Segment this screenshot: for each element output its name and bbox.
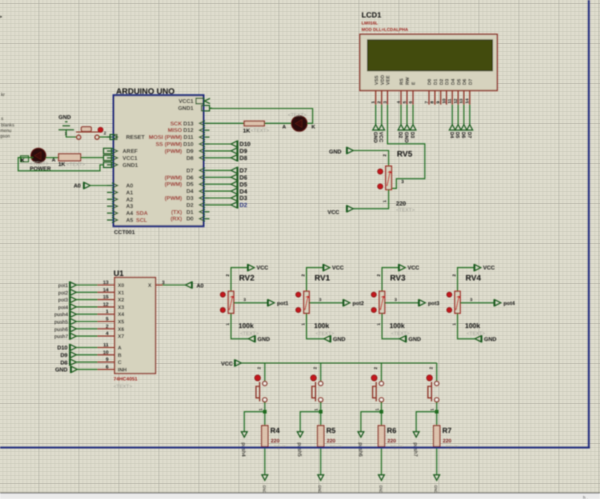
wire D13 to resistor R2 — [210, 122, 245, 124]
svg-text:GND: GND — [372, 132, 378, 144]
svg-text:6: 6 — [106, 364, 109, 370]
svg-text:VCC: VCC — [328, 210, 340, 216]
svg-text:SCL: SCL — [136, 218, 148, 224]
wiper wire of RV2 to pot1 — [234, 302, 268, 304]
svg-text:pot2: pot2 — [353, 301, 364, 307]
U1 inside pin labels — [118, 283, 152, 373]
svg-text:<TEXT>: <TEXT> — [67, 162, 86, 168]
potentiometer RV3 body — [379, 291, 384, 313]
svg-text:pot4: pot4 — [504, 301, 515, 307]
Arduino pin boxes RESET AREF VCC1 GND1 — [110, 135, 117, 140]
svg-text:push7: push7 — [412, 443, 418, 457]
potentiometer RV5 body — [386, 166, 392, 190]
svg-text:AREF: AREF — [123, 149, 139, 155]
wire RV5 pin 1 to VCC terminal — [353, 190, 388, 209]
terminal push7 (down arrow) — [413, 432, 419, 438]
svg-text:GND: GND — [329, 149, 341, 155]
wire junction to terminal push6 — [361, 412, 382, 432]
svg-text:<TEXT>: <TEXT> — [240, 331, 259, 337]
svg-text:<TEXT>: <TEXT> — [467, 331, 486, 337]
svg-text:(PWM): (PWM) — [165, 148, 183, 155]
interactive dots of RV4 — [447, 292, 452, 297]
svg-text:VCC: VCC — [408, 266, 420, 272]
svg-text:D8: D8 — [186, 156, 193, 162]
wire A0 terminal to Arduino pin A0 — [90, 185, 108, 187]
svg-text:100k: 100k — [314, 323, 329, 330]
svg-text:MOD DLL=LCDALPHA: MOD DLL=LCDALPHA — [362, 27, 410, 32]
svg-text:GND: GND — [59, 115, 71, 121]
svg-text:D3: D3 — [409, 132, 415, 139]
svg-text:D5: D5 — [456, 79, 462, 85]
svg-text:A4: A4 — [126, 211, 134, 217]
svg-text:D10: D10 — [183, 142, 193, 148]
resistor R2 1K (D13) — [244, 121, 264, 126]
svg-text:SCK: SCK — [170, 121, 182, 127]
svg-text:D8: D8 — [60, 360, 67, 366]
svg-text:GND: GND — [409, 337, 421, 343]
svg-text:menu: menu — [0, 128, 12, 133]
svg-text:C: C — [118, 360, 122, 366]
wire resistor R1 to VCC1 pin — [81, 157, 104, 159]
terminal pot1 — [268, 299, 275, 306]
potentiometer RV2 top wire to VCC — [231, 268, 248, 291]
terminal pot3 — [419, 299, 426, 306]
svg-text:220: 220 — [396, 201, 407, 208]
svg-text:100k: 100k — [239, 323, 254, 330]
svg-text:VCC: VCC — [378, 132, 384, 143]
svg-text:U1: U1 — [114, 269, 125, 278]
svg-text:X7: X7 — [118, 334, 124, 340]
U1 pin numbers left — [103, 280, 109, 370]
svg-text:A: A — [118, 346, 122, 352]
svg-text:SS (PWM): SS (PWM) — [156, 141, 183, 148]
svg-text:INH: INH — [118, 367, 127, 373]
junction dot below button push4 — [263, 410, 267, 414]
svg-text:X3: X3 — [118, 305, 124, 311]
svg-text:D9: D9 — [60, 353, 67, 359]
svg-text:D7: D7 — [468, 79, 474, 85]
svg-text:D1: D1 — [186, 210, 193, 216]
svg-text:10: 10 — [441, 98, 446, 103]
svg-text:pot2: pot2 — [58, 290, 68, 296]
Arduino left pin stubs and arrows — [107, 134, 118, 222]
ground terminal below R4 — [262, 475, 268, 481]
wire resistor R6 to ground terminal — [380, 447, 382, 475]
svg-text:A0: A0 — [197, 283, 204, 289]
svg-text:VCC: VCC — [257, 266, 269, 272]
svg-text:GND: GND — [434, 485, 438, 494]
svg-text:220: 220 — [387, 439, 396, 445]
svg-text:push6: push6 — [357, 443, 363, 457]
LCD1 pin numbers — [371, 98, 470, 103]
svg-text:14: 14 — [465, 98, 470, 103]
svg-text:D0: D0 — [186, 217, 193, 223]
svg-text:push5: push5 — [296, 443, 302, 457]
interactive dot of button push4 — [255, 375, 261, 381]
svg-text:9: 9 — [106, 357, 109, 363]
sheet border vertical line — [588, 0, 590, 448]
svg-text:<TEXT>: <TEXT> — [251, 128, 270, 134]
svg-text:D12: D12 — [183, 128, 193, 134]
push button SW1 (reset) — [76, 127, 99, 139]
terminal push4 (down arrow) — [241, 432, 247, 438]
wire button push4 to junction — [264, 402, 266, 412]
svg-text:GND: GND — [378, 485, 382, 494]
svg-text:1K: 1K — [243, 128, 250, 134]
svg-text:K: K — [21, 158, 25, 164]
svg-text:A2: A2 — [126, 197, 133, 203]
svg-text:(PWM): (PWM) — [165, 195, 183, 202]
bottom wire of RV4 to GND — [458, 313, 476, 339]
LCD1 pin stubs — [376, 91, 470, 105]
svg-text:3: 3 — [401, 179, 404, 184]
svg-text:POWER: POWER — [30, 166, 51, 172]
svg-text:D7: D7 — [186, 168, 193, 174]
svg-text:D6: D6 — [462, 79, 468, 85]
svg-text:gson: gson — [0, 134, 10, 139]
svg-text:<TEXT>: <TEXT> — [288, 113, 307, 119]
Arduino UNO module body — [114, 95, 204, 226]
svg-text:100k: 100k — [390, 323, 405, 330]
Arduino pin boxes VCC1 GND1 top right — [196, 98, 204, 103]
interactive dot of button push5 — [311, 375, 317, 381]
ground terminal below R6 — [378, 475, 384, 481]
svg-text:A: A — [282, 124, 286, 130]
U1 left pin stubs — [98, 285, 115, 369]
svg-text:K: K — [312, 124, 316, 130]
svg-text:D3: D3 — [186, 196, 193, 202]
svg-text:GND: GND — [55, 368, 67, 374]
svg-text:push5: push5 — [54, 320, 68, 326]
svg-text:CCT001: CCT001 — [114, 230, 135, 236]
LCD1 pin name labels — [374, 74, 474, 85]
interactive dot of button push7 — [427, 375, 433, 381]
svg-text:RV1: RV1 — [315, 274, 331, 283]
wire junction to resistor R7 — [436, 412, 438, 426]
wires Arduino D10 D9 D8 to terminals — [210, 143, 232, 145]
svg-text:push4: push4 — [54, 312, 68, 318]
svg-text:<TEXT>: <TEXT> — [114, 384, 133, 390]
svg-text:D6: D6 — [186, 175, 193, 181]
interactive dot of button push6 — [371, 375, 377, 381]
junction dot below button push5 — [319, 410, 323, 414]
Arduino red function labels — [149, 121, 183, 222]
Arduino left pin name labels — [123, 135, 146, 224]
svg-text:2: 2 — [106, 324, 109, 330]
interactive dots of RV3 — [371, 292, 376, 297]
wire button push5 to junction — [320, 402, 322, 412]
terminals D7 D6 D5 D4 D3 D2 — [231, 167, 238, 174]
svg-text:D13: D13 — [183, 121, 193, 127]
wire ground to button SW1 — [66, 130, 76, 137]
wire junction to resistor R4 — [264, 412, 266, 426]
svg-text:blanks: blanks — [1, 123, 15, 128]
svg-text:X6: X6 — [118, 327, 124, 333]
svg-text:pot4: pot4 — [58, 305, 68, 311]
wire resistor R5 to ground terminal — [320, 447, 322, 475]
svg-text:MOSI (PWM): MOSI (PWM) — [149, 134, 182, 141]
potentiometer RV1 body — [304, 291, 309, 313]
wire LED D2 cathode to GND1 — [210, 109, 313, 124]
svg-text:GND: GND — [258, 337, 270, 343]
svg-text:(RX): (RX) — [171, 216, 183, 223]
wire button push7 to junction — [436, 402, 438, 412]
svg-text:D1: D1 — [433, 79, 439, 85]
svg-text:(PWM): (PWM) — [165, 174, 183, 181]
svg-text:GND: GND — [403, 132, 409, 144]
svg-text:D3: D3 — [445, 79, 451, 85]
interactive dots of RV1 — [296, 292, 301, 297]
svg-text:(TX): (TX) — [171, 209, 182, 216]
potentiometer RV3 top wire to VCC — [382, 268, 399, 291]
svg-text:push6: push6 — [54, 327, 68, 333]
svg-text:220: 220 — [271, 439, 280, 445]
wire button push6 to junction — [380, 402, 382, 412]
wire junction to terminal push5 — [300, 412, 321, 432]
wire junction to terminal push4 — [244, 412, 264, 432]
wiper wire of RV4 to pot4 — [460, 302, 494, 304]
terminal A0 at U1 output — [186, 281, 193, 288]
terminal push6 (down arrow) — [358, 432, 364, 438]
svg-text:D0: D0 — [427, 79, 433, 85]
power terminal VCC of RV4 — [474, 264, 481, 271]
wire rail to button push7 — [436, 363, 438, 382]
wire rail to button push6 — [380, 363, 382, 382]
svg-text:push4: push4 — [240, 443, 246, 457]
wire VEE to RV5 wiper — [388, 105, 425, 189]
VCC rail wire for buttons — [241, 362, 436, 364]
wire LED anode to resistor R1 — [46, 157, 59, 159]
potentiometer RV4 top wire to VCC — [458, 268, 475, 291]
interactive dots of RV2 — [220, 292, 225, 297]
wire button to RESET pin — [99, 136, 109, 138]
svg-text:SDA: SDA — [136, 211, 148, 217]
svg-text:R4: R4 — [270, 426, 280, 435]
svg-text:RV3: RV3 — [390, 274, 406, 283]
svg-text:GND1: GND1 — [178, 106, 194, 112]
svg-text:14: 14 — [103, 287, 109, 293]
svg-text:11: 11 — [103, 343, 109, 349]
resistor R5 — [318, 426, 324, 447]
resistor R6 — [378, 426, 384, 447]
svg-text:D2: D2 — [397, 132, 403, 139]
terminal pot2 — [343, 299, 350, 306]
U1 output pin 3 stub — [156, 284, 163, 286]
wires Arduino D7-D2 to terminals — [210, 169, 232, 171]
svg-text:VSS: VSS — [374, 75, 380, 85]
LCD1 wires to terminals — [375, 105, 377, 125]
svg-text:X2: X2 — [118, 298, 124, 304]
wire resistor R2 to LED D2 — [264, 122, 291, 124]
svg-text:VCC1: VCC1 — [123, 156, 138, 162]
svg-text:RS: RS — [399, 78, 405, 85]
svg-text:A: A — [52, 158, 56, 164]
wire junction to resistor R6 — [380, 412, 382, 426]
svg-text:D5: D5 — [186, 182, 193, 188]
svg-text:VCC: VCC — [483, 266, 495, 272]
wiper wire of RV3 to pot3 — [385, 302, 419, 304]
svg-text:push7: push7 — [54, 334, 68, 340]
LCD1 body — [360, 34, 497, 90]
svg-text:D2: D2 — [439, 79, 445, 85]
svg-text:D4: D4 — [186, 189, 194, 195]
svg-text:D2: D2 — [240, 202, 248, 209]
svg-text:GND: GND — [333, 337, 345, 343]
bottom wire of RV2 to GND — [231, 313, 249, 339]
wiper wire of RV1 to pot2 — [309, 302, 343, 304]
svg-text:h .: h . — [583, 495, 588, 499]
svg-text:B: B — [118, 353, 122, 359]
Arduino right pin name labels — [178, 99, 194, 223]
push button push6 — [373, 381, 384, 402]
svg-text:GND: GND — [318, 485, 322, 494]
ground terminal below R5 — [318, 475, 324, 481]
ground terminal below R7 — [434, 475, 440, 481]
Arduino right pin stubs and arrows — [200, 98, 213, 221]
svg-text:15: 15 — [103, 295, 109, 301]
svg-text:A5: A5 — [126, 218, 133, 224]
interactive dot of reset button — [98, 127, 103, 132]
ground symbol near reset button — [59, 122, 75, 130]
svg-text:1: 1 — [106, 309, 109, 315]
svg-text:A3: A3 — [126, 204, 133, 210]
svg-text:D3: D3 — [240, 195, 248, 202]
svg-text:VCC: VCC — [221, 361, 233, 367]
wire rail to button push4 — [264, 363, 266, 382]
svg-text:D7: D7 — [240, 168, 248, 175]
svg-text:D5: D5 — [240, 181, 248, 188]
svg-text:100k: 100k — [465, 323, 480, 330]
bottom wire of RV1 to GND — [307, 313, 325, 339]
LCD1 terminals with labels — [373, 125, 379, 131]
svg-text:12: 12 — [453, 98, 458, 103]
svg-text:D2: D2 — [186, 203, 193, 209]
svg-text:LCD1: LCD1 — [362, 11, 383, 20]
svg-text:D4: D4 — [240, 188, 248, 195]
svg-text:D9: D9 — [186, 149, 193, 155]
wire resistor R7 to ground terminal — [436, 447, 438, 475]
LED D2 (D13 indicator) — [292, 116, 308, 132]
svg-text:<TEXT>: <TEXT> — [316, 331, 335, 337]
svg-text:(PWM): (PWM) — [165, 181, 183, 188]
potentiometer RV2 body — [228, 291, 233, 313]
svg-text:10: 10 — [103, 350, 109, 356]
wire rail to button push5 — [320, 363, 322, 382]
bottom wire of RV3 to GND — [382, 313, 400, 339]
svg-text:VEE: VEE — [386, 75, 392, 85]
terminal pot4 — [494, 299, 501, 306]
svg-text:74HC4051: 74HC4051 — [114, 376, 138, 382]
wire U1 output to A0 terminal — [163, 284, 186, 286]
svg-text:VDD: VDD — [380, 74, 386, 85]
svg-text:X4: X4 — [118, 312, 124, 318]
svg-text:kr: kr — [1, 92, 5, 97]
power terminal VCC of RV1 — [323, 264, 330, 271]
svg-text:RV2: RV2 — [239, 274, 255, 283]
svg-text:R5: R5 — [326, 426, 335, 435]
wire LED cathode to ground run — [18, 158, 103, 171]
terminals D10 D9 D8 — [231, 140, 238, 147]
svg-text:<TEXT>: <TEXT> — [396, 208, 415, 214]
svg-text:VCC: VCC — [332, 266, 344, 272]
multiplexer U1 body — [115, 278, 156, 374]
ground terminal of RV4 — [475, 335, 482, 342]
power terminal VCC of RV3 — [399, 264, 406, 271]
ground terminal of RV1 — [324, 335, 331, 342]
potentiometer RV4 body — [455, 291, 460, 313]
svg-text:GND: GND — [262, 485, 266, 494]
svg-text:LM016L: LM016L — [362, 21, 379, 26]
svg-text:X5: X5 — [118, 320, 124, 326]
svg-text:D11: D11 — [184, 135, 194, 141]
svg-text:A0: A0 — [74, 184, 81, 190]
svg-text:1K: 1K — [58, 162, 65, 168]
bottom status strip — [0, 493, 600, 499]
power terminal VCC of RV2 — [248, 264, 255, 271]
sheet border horizontal line — [0, 447, 590, 449]
svg-text:13: 13 — [103, 280, 109, 286]
svg-text:D4: D4 — [451, 79, 457, 85]
svg-text:220: 220 — [443, 439, 452, 445]
svg-text:RW: RW — [405, 77, 411, 85]
green pin box at LED cathode — [21, 156, 29, 162]
left margin cut-off text fragments — [0, 14, 15, 139]
svg-text:4: 4 — [106, 331, 109, 337]
wire resistor R4 to ground terminal — [264, 447, 266, 475]
svg-text:VCC1: VCC1 — [179, 99, 194, 105]
svg-text:D9: D9 — [240, 148, 248, 155]
svg-text:X: X — [148, 283, 152, 289]
svg-text:D8: D8 — [240, 155, 248, 162]
svg-text:D4: D4 — [448, 132, 454, 139]
svg-text:X1: X1 — [118, 290, 124, 296]
junction dot below button push7 — [435, 410, 439, 414]
junction dot below button push6 — [380, 410, 384, 414]
push button push5 — [312, 381, 323, 402]
svg-text:<TEXT>: <TEXT> — [391, 331, 410, 337]
svg-text:RV5: RV5 — [397, 149, 413, 158]
svg-text:13: 13 — [459, 98, 464, 103]
svg-text:X0: X0 — [118, 283, 124, 289]
svg-text:MISO: MISO — [168, 128, 183, 134]
svg-text:12: 12 — [103, 302, 109, 308]
potentiometer RV1 top wire to VCC — [307, 268, 324, 291]
push button push7 — [428, 381, 439, 402]
svg-text:D6: D6 — [240, 175, 248, 182]
interactive dots of RV5 — [378, 169, 383, 174]
svg-text:GND: GND — [484, 337, 496, 343]
svg-text:R7: R7 — [442, 426, 451, 435]
svg-text:5: 5 — [106, 317, 109, 323]
resistor R1 1K (power) — [59, 154, 81, 161]
svg-text:pot1: pot1 — [58, 283, 68, 289]
svg-text:D10: D10 — [57, 346, 67, 352]
wire junction to terminal push7 — [416, 412, 437, 432]
svg-text:pot1: pot1 — [277, 301, 288, 307]
resistor R4 — [262, 426, 268, 447]
svg-text:220: 220 — [327, 439, 336, 445]
terminal push5 (down arrow) — [297, 432, 303, 438]
ground terminal of RV2 — [249, 335, 256, 342]
svg-text:pot3: pot3 — [428, 301, 439, 307]
LCD1 screen — [368, 40, 493, 71]
LED D1 POWER — [31, 148, 46, 163]
svg-text:11: 11 — [447, 98, 452, 103]
push button push4 — [256, 381, 267, 402]
svg-text:GND1: GND1 — [123, 163, 139, 169]
svg-text:A0: A0 — [126, 184, 133, 190]
wire junction to resistor R5 — [320, 412, 322, 426]
